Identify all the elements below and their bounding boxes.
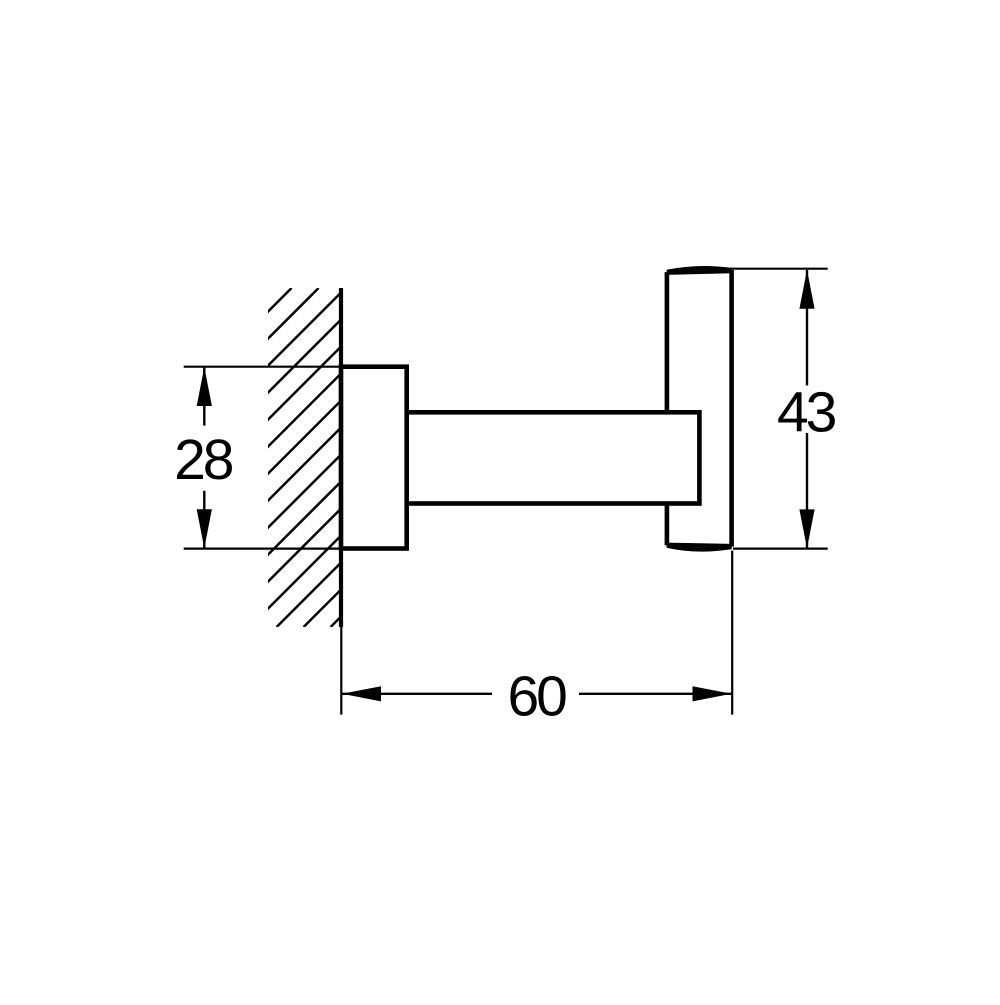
dimension 60 line xyxy=(342,693,492,695)
hook plate xyxy=(667,268,732,550)
svg-text:43: 43 xyxy=(777,381,836,445)
extension line 43 bottom xyxy=(733,547,828,549)
arrow 60 right xyxy=(693,686,732,701)
wall line xyxy=(339,288,343,627)
arrow 43 up xyxy=(799,270,814,309)
arrow 60 left xyxy=(342,686,381,701)
extension line 28 bottom xyxy=(184,547,341,549)
arm xyxy=(407,412,700,503)
extension line 60 left xyxy=(340,627,342,715)
arrow 28 down xyxy=(197,509,212,548)
dimension 43 line xyxy=(806,270,808,386)
svg-text:28: 28 xyxy=(174,428,233,492)
dimension 28 line xyxy=(203,367,205,426)
wall hatching xyxy=(0,288,670,627)
extension line 60 right xyxy=(731,551,733,715)
svg-text:60: 60 xyxy=(507,665,566,729)
extension line 43 top xyxy=(705,268,828,270)
arrow 28 up xyxy=(197,367,212,406)
mounting plate xyxy=(341,367,407,549)
arrow 43 down xyxy=(799,509,814,548)
extension line 28 top xyxy=(184,366,341,368)
